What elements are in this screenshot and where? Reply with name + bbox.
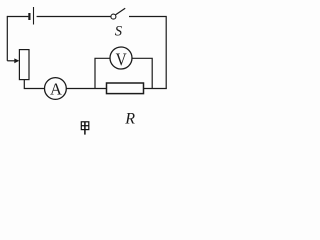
wire ammeter to rheostat bottom (24, 80, 44, 90)
voltmeter U1 circle (110, 47, 132, 69)
resistor R body (107, 83, 144, 94)
rheostat body (19, 50, 29, 80)
wire top-left horizontal segment (7, 16, 28, 18)
battery short plate (negative) (28, 13, 30, 20)
svg-text:V: V (116, 49, 127, 69)
wire voltmeter left lead (95, 58, 110, 88)
switch S pivot circle (111, 14, 116, 19)
svg-text:A: A (50, 80, 62, 99)
wire resistor to ammeter (66, 88, 106, 90)
switch S blade (open) (116, 8, 126, 15)
rheostat wiper arrowhead (14, 58, 19, 63)
wire battery to switch (37, 16, 111, 18)
rheostat wiper arrow shaft (7, 60, 15, 62)
wire left vertical segment (6, 16, 8, 61)
svg-text:R: R (124, 111, 135, 128)
caption 甲 (figure label, drawn strokes) (81, 122, 89, 135)
wire voltmeter right lead (132, 58, 152, 88)
battery long plate (positive) (33, 7, 35, 25)
wire bottom-right horizontal to resistor (144, 88, 167, 90)
ammeter A1 circle (45, 78, 67, 100)
svg-text:S: S (115, 23, 123, 39)
wire switch to top-right corner and right side down (129, 17, 166, 89)
